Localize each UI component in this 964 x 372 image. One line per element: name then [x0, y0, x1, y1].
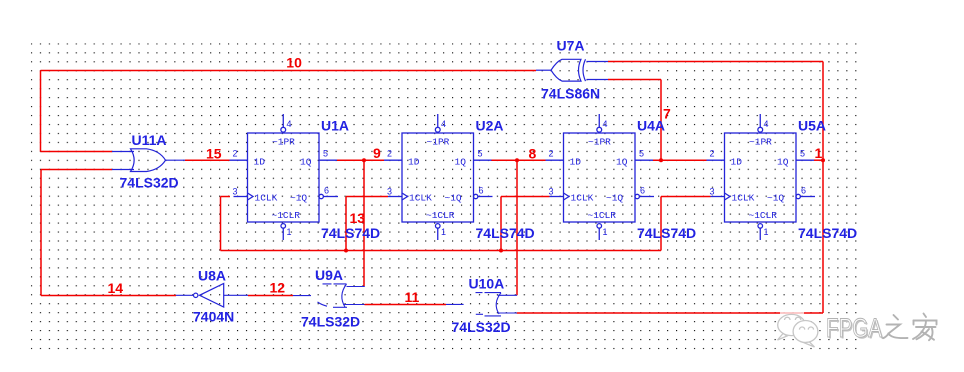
D flip-flop U5A (74LS74D)	[707, 114, 858, 241]
svg-text:U9A: U9A	[315, 267, 343, 283]
svg-text:1: 1	[815, 145, 823, 161]
wire net10 left vertical	[40, 71, 42, 152]
wire net13 U4A clk drop	[501, 197, 550, 251]
wire net1 U5A Q segment	[814, 159, 823, 161]
svg-text:3: 3	[233, 187, 238, 197]
svg-text:5: 5	[800, 149, 805, 159]
hanzi jia	[913, 314, 937, 341]
svg-text:FPGA: FPGA	[826, 313, 882, 343]
svg-text:1: 1	[441, 227, 446, 237]
wire net10 into U11A top input	[41, 151, 113, 153]
svg-text:7404N: 7404N	[193, 309, 234, 325]
svg-text:5: 5	[478, 149, 483, 159]
node label 12	[270, 280, 286, 296]
node net9 junction	[362, 158, 366, 162]
svg-text:5: 5	[323, 149, 328, 159]
wire net7 XOR lower input horizontal	[608, 79, 661, 81]
svg-text:74LS74D: 74LS74D	[637, 225, 696, 241]
svg-text:2: 2	[233, 149, 238, 159]
wire net9 U1A Q to U2A D	[337, 159, 385, 161]
or-gate U11A (74LS32D)	[112, 132, 185, 191]
node label 1 (orange)	[815, 145, 823, 161]
svg-text:74LS74D: 74LS74D	[798, 225, 857, 241]
wire net8 U2A Q to U4A D	[491, 159, 546, 161]
wire net13 clock rail	[221, 250, 662, 252]
svg-text:~1Q: ~1Q	[445, 192, 462, 203]
svg-text:74LS86N: 74LS86N	[541, 86, 600, 102]
svg-text:10: 10	[286, 55, 302, 71]
svg-text:~1CLR: ~1CLR	[588, 210, 617, 221]
wire net10 top horizontal	[41, 70, 537, 72]
svg-text:1D: 1D	[731, 156, 743, 167]
svg-text:1Q: 1Q	[777, 156, 789, 167]
wire net1 right vertical	[822, 62, 824, 314]
svg-text:1: 1	[764, 227, 769, 237]
node net13 junction U4A	[499, 249, 503, 253]
svg-text:U2A: U2A	[476, 118, 504, 134]
grid backdrop	[31, 43, 862, 349]
svg-text:1CLK: 1CLK	[732, 192, 755, 203]
svg-text:1Q: 1Q	[300, 156, 312, 167]
D flip-flop U1A (74LS74D)	[230, 114, 381, 241]
hanzi zhi	[883, 315, 908, 338]
svg-text:~1Q: ~1Q	[290, 192, 307, 203]
xor-gate U7A (74LS86N), mirrored facing left	[536, 38, 608, 102]
node net7 junction	[659, 158, 663, 162]
wire net12 U9A out to U8A in	[248, 295, 293, 297]
svg-text:2: 2	[549, 149, 554, 159]
svg-text:14: 14	[108, 280, 124, 296]
svg-text:U8A: U8A	[198, 268, 226, 284]
svg-text:4: 4	[764, 119, 769, 129]
node label 15	[206, 146, 222, 162]
svg-text:74LS74D: 74LS74D	[476, 225, 535, 241]
node net13 junction U2A	[344, 249, 348, 253]
svg-text:~1PR: ~1PR	[588, 137, 611, 148]
svg-text:1CLK: 1CLK	[409, 192, 432, 203]
svg-text:1CLK: 1CLK	[571, 192, 594, 203]
inverter U8A (7404N), facing left	[176, 268, 248, 325]
wire net14 left vertical	[40, 170, 42, 296]
svg-text:74LS32D: 74LS32D	[452, 319, 511, 335]
svg-text:11: 11	[405, 289, 420, 305]
node label 8	[529, 146, 537, 162]
svg-text:6: 6	[479, 186, 484, 196]
node label 10	[286, 55, 302, 71]
svg-text:~1PR: ~1PR	[427, 137, 450, 148]
svg-text:6: 6	[801, 186, 806, 196]
wire net15 U11A out to U1A D	[185, 159, 230, 161]
svg-text:15: 15	[206, 146, 222, 162]
svg-text:~1CLR: ~1CLR	[426, 210, 455, 221]
svg-text:U1A: U1A	[321, 118, 349, 134]
svg-text:~1Q: ~1Q	[606, 192, 623, 203]
svg-text:3: 3	[710, 187, 715, 197]
D flip-flop U2A (74LS74D)	[384, 114, 535, 241]
svg-text:9: 9	[373, 145, 381, 161]
node label 11	[405, 289, 420, 305]
svg-text:U4A: U4A	[637, 118, 665, 134]
svg-text:U5A: U5A	[798, 118, 826, 134]
wire net13 U2A clk drop	[346, 197, 388, 251]
svg-text:74LS32D: 74LS32D	[120, 175, 179, 191]
node label 13	[350, 210, 366, 226]
wire net13 U5A clk drop	[661, 197, 711, 251]
svg-text:4: 4	[603, 119, 608, 129]
svg-text:6: 6	[324, 186, 329, 196]
svg-text:~1CLR: ~1CLR	[272, 210, 301, 221]
svg-text:74LS74D: 74LS74D	[321, 225, 380, 241]
wire net7 vertical	[660, 80, 662, 161]
node net8 junction	[515, 158, 519, 162]
svg-text:3: 3	[387, 187, 392, 197]
wire net9 vertical drop to U9A	[363, 160, 365, 286]
svg-text:~1PR: ~1PR	[272, 137, 295, 148]
D flip-flop U4A (74LS74D)	[546, 114, 697, 241]
watermark: WeChat icon + FPGA之家 text	[778, 308, 937, 347]
svg-text:2: 2	[710, 149, 715, 159]
svg-text:3: 3	[549, 187, 554, 197]
svg-text:4: 4	[441, 119, 446, 129]
svg-text:74LS32D: 74LS32D	[301, 314, 360, 330]
wire net11 U10A out to U9A input	[365, 304, 447, 306]
svg-text:1Q: 1Q	[455, 156, 467, 167]
svg-text:1Q: 1Q	[616, 156, 628, 167]
wire net13 U1A clk drop	[221, 197, 231, 251]
svg-text:U11A: U11A	[132, 132, 167, 148]
wire net1 XOR upper input to right	[608, 61, 823, 63]
wire net14 bottom horizontal	[41, 295, 176, 297]
wire net7 U4A Q to U5A D	[653, 159, 707, 161]
node label 7	[663, 106, 671, 122]
svg-text:5: 5	[639, 149, 644, 159]
svg-text:8: 8	[529, 146, 537, 162]
svg-text:12: 12	[270, 280, 286, 296]
svg-text:~1Q: ~1Q	[767, 192, 784, 203]
svg-text:1D: 1D	[254, 156, 266, 167]
node label 14	[108, 280, 124, 296]
or-gate U10A (74LS32D), mirrored facing left, sketchy strokes	[446, 276, 517, 335]
or-gate U9A (74LS32D), mirrored facing left, sketchy strokes	[293, 267, 365, 330]
svg-text:4: 4	[287, 119, 292, 129]
svg-text:6: 6	[640, 186, 645, 196]
svg-text:~1CLR: ~1CLR	[749, 210, 778, 221]
svg-text:U7A: U7A	[557, 38, 585, 54]
svg-text:1D: 1D	[570, 156, 582, 167]
wire net14 into U11A bottom input	[41, 169, 112, 171]
svg-text:U10A: U10A	[469, 276, 505, 292]
node label 9	[373, 145, 381, 161]
svg-text:1: 1	[287, 227, 292, 237]
svg-text:2: 2	[387, 149, 392, 159]
svg-text:1: 1	[603, 227, 608, 237]
wire net1 bottom horizontal to U10A input	[517, 312, 824, 314]
wire net8 vertical drop to U10A	[516, 160, 518, 295]
svg-text:1CLK: 1CLK	[255, 192, 278, 203]
svg-text:1D: 1D	[408, 156, 420, 167]
node net1 junction	[821, 158, 825, 162]
svg-text:13: 13	[350, 210, 366, 226]
svg-text:~1PR: ~1PR	[749, 137, 772, 148]
